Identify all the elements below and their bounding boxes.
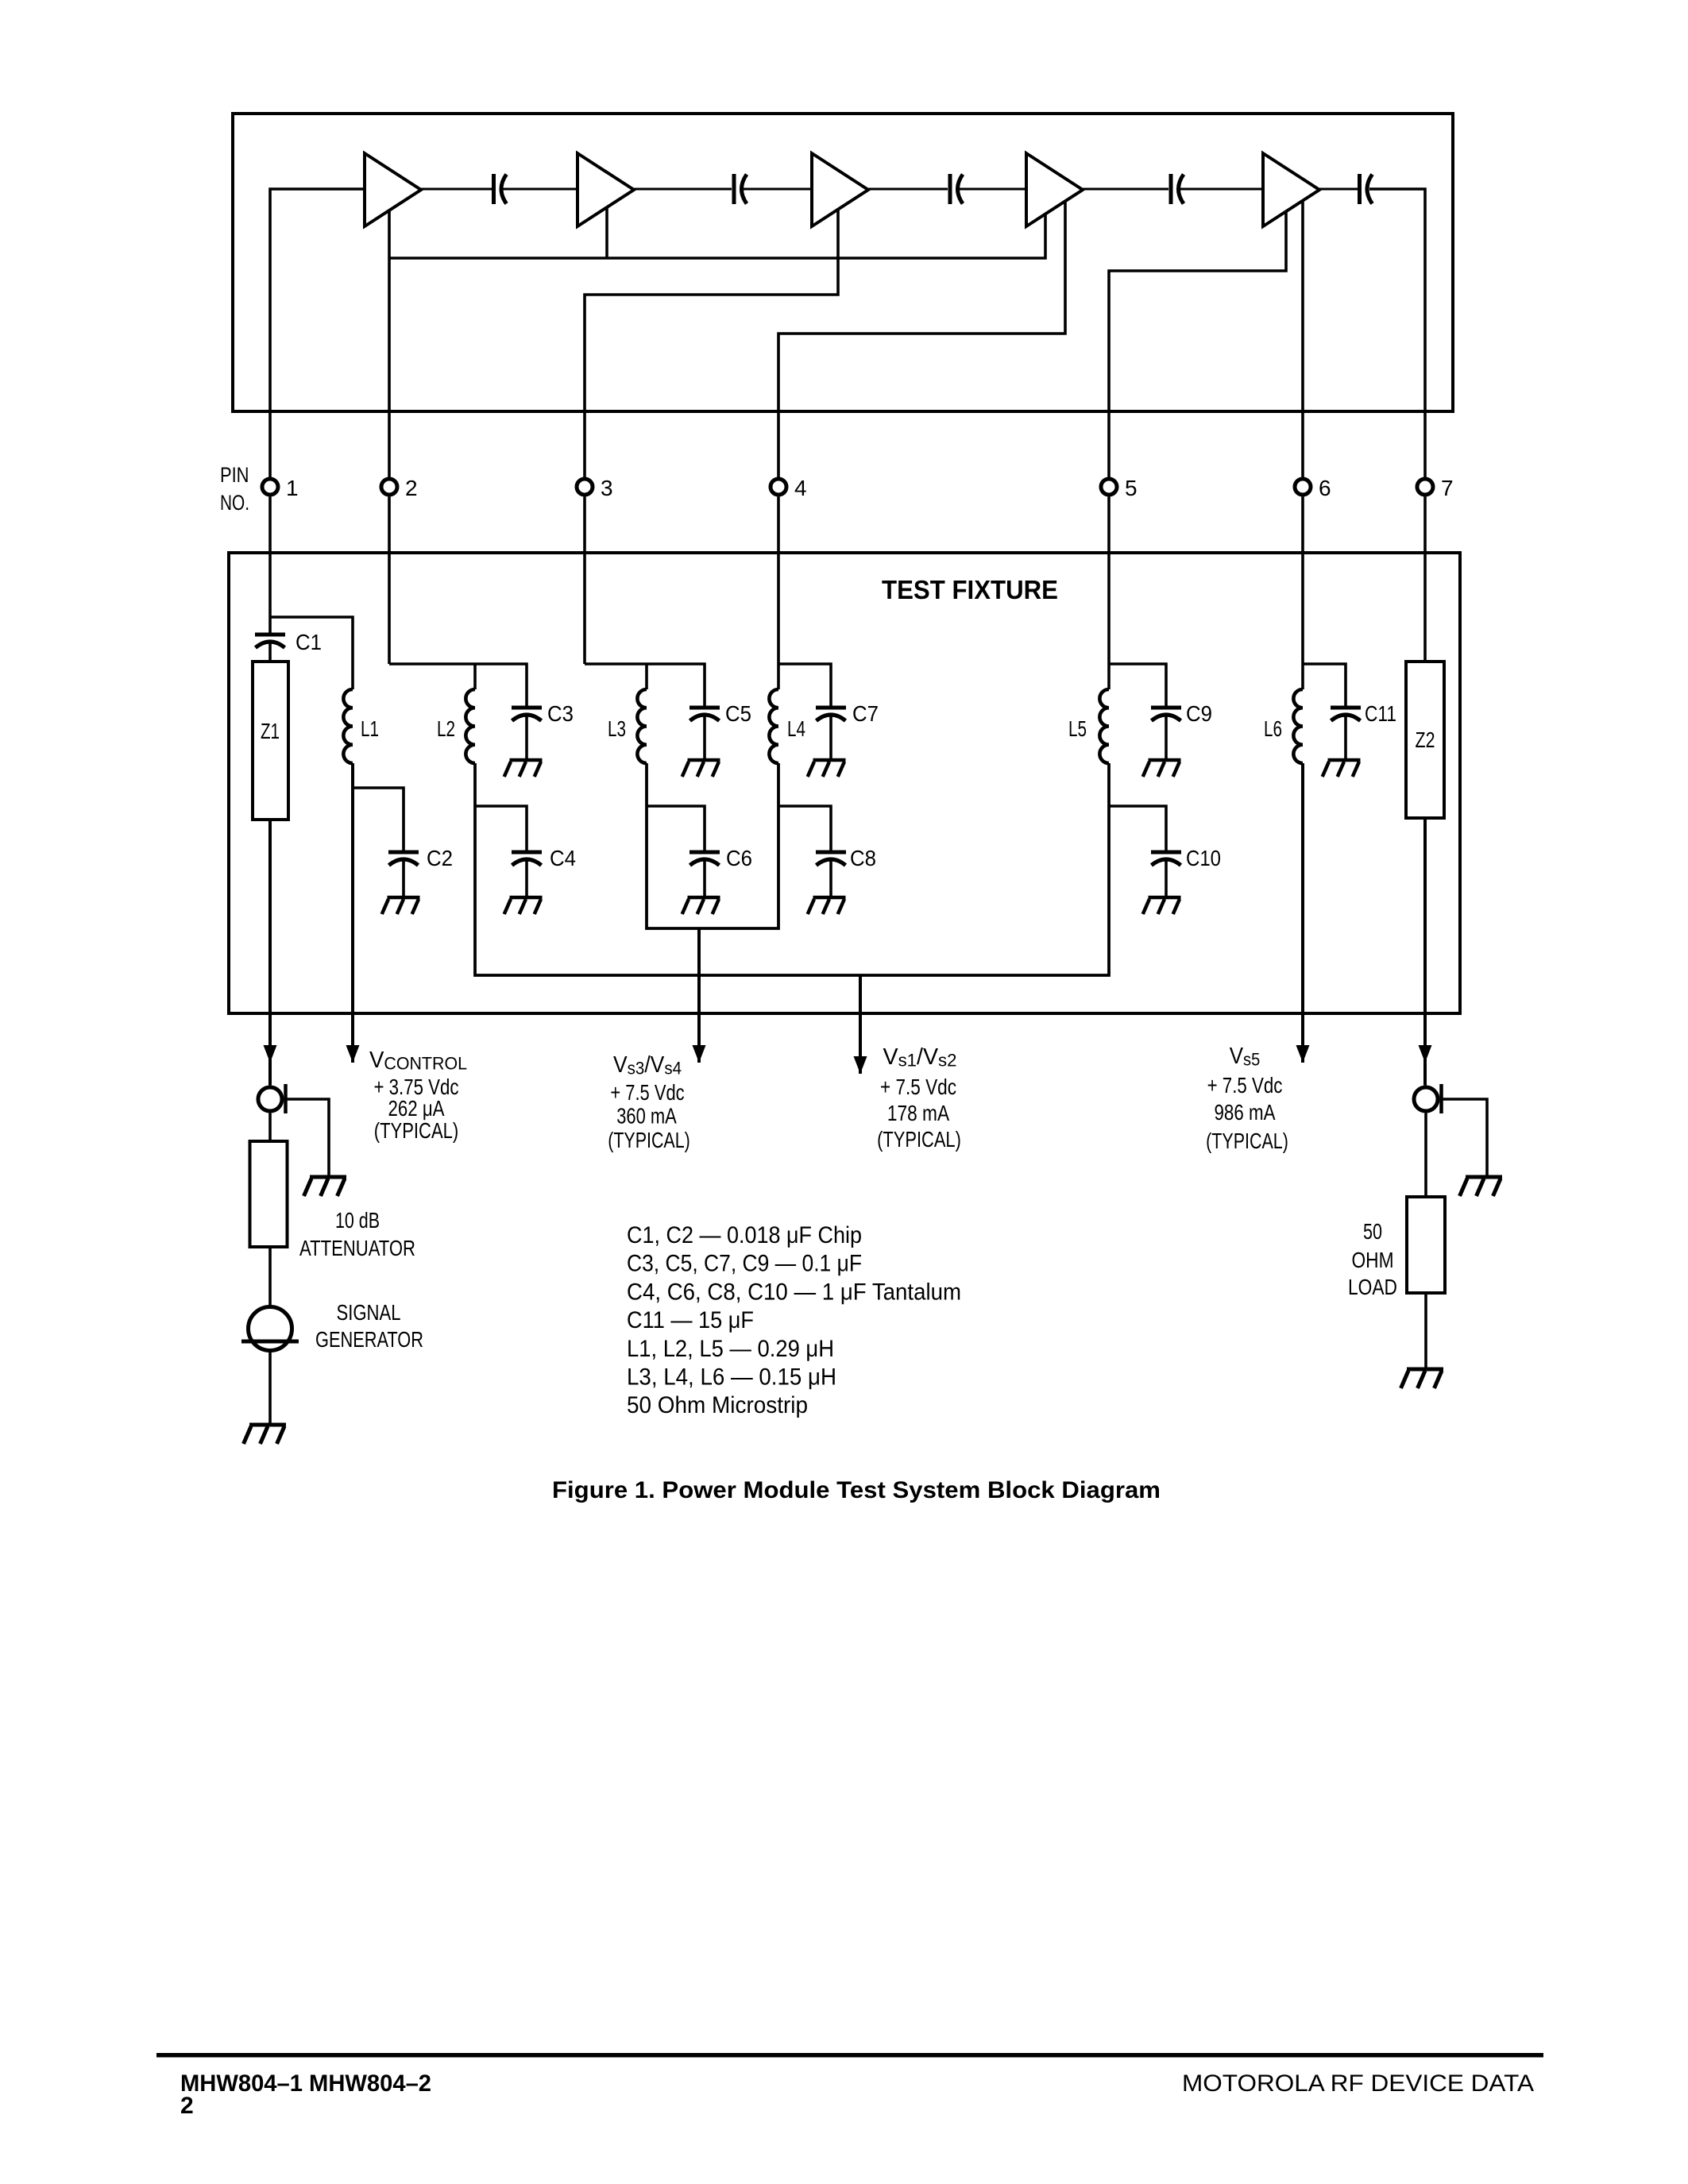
capacitor C7 (816, 708, 846, 721)
svg-text:PIN: PIN (220, 463, 249, 487)
svg-text:+ 7.5 Vdc: + 7.5 Vdc (1207, 1073, 1283, 1098)
wire: C10 to ground (1165, 859, 1168, 896)
wire: input connector shield tap (288, 1099, 330, 1175)
capacitor C2 (388, 852, 419, 866)
wire: A2 bias drop (605, 207, 608, 258)
svg-text:OHM: OHM (1352, 1248, 1394, 1272)
svg-text:L5: L5 (1068, 716, 1087, 741)
coupling capacitor output (1360, 174, 1373, 204)
wire: C1 to Z1 (268, 642, 272, 662)
load resistor (50 ohm) (1407, 1197, 1445, 1293)
svg-text:C3: C3 (547, 701, 574, 726)
ground (signal generator) (244, 1425, 287, 1444)
svg-text:C3, C5, C7, C9 — 0.1 μF: C3, C5, C7, C9 — 0.1 μF (627, 1251, 862, 1277)
svg-text:(TYPICAL): (TYPICAL) (1206, 1129, 1288, 1153)
pin 5 terminal (1101, 479, 1117, 495)
capacitor C9 (1151, 708, 1181, 721)
svg-text:C11 — 15 μF: C11 — 15 μF (627, 1307, 754, 1333)
wire: output connector shield tap (1443, 1099, 1488, 1175)
wire: C3 to ground (525, 715, 528, 758)
svg-text:ATTENUATOR: ATTENUATOR (299, 1236, 415, 1260)
inductor L1 (343, 689, 353, 763)
impedance Z2 (1406, 662, 1444, 818)
svg-text:+ 7.5 Vdc: + 7.5 Vdc (610, 1080, 684, 1105)
wire: pin3 feed rail (585, 664, 705, 706)
capacitor C11 (1331, 708, 1361, 721)
svg-text:(TYPICAL): (TYPICAL) (608, 1128, 690, 1152)
svg-text:MHW804–1 MHW804–2: MHW804–1 MHW804–2 (180, 2070, 431, 2097)
wire: pin 3 into fixture (583, 497, 586, 665)
capacitor C5 (689, 708, 720, 721)
svg-text:NO.: NO. (220, 491, 249, 515)
arrow: VS3/VS4 feed (693, 1045, 706, 1063)
svg-text:178 mA: 178 mA (887, 1101, 949, 1125)
svg-text:Vs3/Vs4: Vs3/Vs4 (613, 1052, 682, 1078)
svg-text:C9: C9 (1186, 701, 1212, 726)
pin 2 terminal (381, 479, 397, 495)
ground (output connector) (1460, 1177, 1503, 1196)
coupling capacitor A2-A3 (734, 174, 747, 204)
wire: to A5 input (1180, 188, 1263, 191)
svg-text:+ 7.5 Vdc: + 7.5 Vdc (880, 1075, 956, 1099)
wire: to A3 input (744, 188, 812, 191)
wire: A2 output (633, 188, 732, 191)
amplifier A3 (812, 153, 868, 226)
svg-text:(TYPICAL): (TYPICAL) (374, 1118, 459, 1143)
wire: pin 6 into fixture / L6 stem (1301, 497, 1304, 690)
svg-text:C4: C4 (550, 846, 576, 870)
amplifier A4 (1026, 153, 1083, 226)
wire: connector to load (1424, 1113, 1427, 1198)
footer rule (156, 2053, 1543, 2058)
svg-text:C5: C5 (725, 701, 751, 726)
amplifier A1 (365, 153, 421, 226)
svg-text:C2: C2 (427, 846, 453, 870)
coupling capacitor A1-A2 (494, 174, 507, 204)
wire: L4 to C8 / C8 top stem (778, 806, 831, 851)
svg-text:Vs1/Vs2: Vs1/Vs2 (883, 1044, 957, 1071)
wire: input to amplifier A1 / pin 1 column (270, 189, 365, 477)
ground (C7) (808, 760, 846, 777)
capacitor C4 (512, 852, 542, 866)
wire: C6 to ground (703, 859, 706, 896)
svg-text:360 mA: 360 mA (616, 1104, 677, 1129)
arrow: VS5 feed (1296, 1045, 1310, 1063)
wire: to A2 input (503, 188, 577, 191)
wire: pin 2 into fixture (388, 497, 391, 665)
arrow: VS1/VS2 feed (854, 1056, 867, 1074)
signal generator (241, 1307, 299, 1351)
svg-text:LOAD: LOAD (1348, 1275, 1397, 1299)
pin 6 terminal (1295, 479, 1311, 495)
svg-text:TEST FIXTURE: TEST FIXTURE (882, 575, 1058, 604)
pin 1 terminal (262, 479, 278, 495)
coax connector (output) (1414, 1084, 1442, 1113)
wire: pin2 feed rail (389, 664, 527, 706)
wire: Z2 to RF output connector (1423, 818, 1427, 1086)
wire: pin 5 into fixture / L5 stem (1107, 497, 1111, 690)
wire: A1 output (421, 188, 492, 191)
ground (C8) (808, 897, 846, 914)
wire: A4 bias drop b / bias rail C / pin 4 column (778, 201, 1065, 477)
svg-text:L2: L2 (437, 716, 455, 741)
inductor L4 (769, 689, 778, 763)
inductor L3 (637, 689, 647, 763)
wire: L1 bottom to C2 / C2 top stem (353, 788, 404, 851)
svg-text:Figure 1. Power Module Test Sy: Figure 1. Power Module Test System Block… (552, 1477, 1161, 1503)
wire: A5 output drop / pin 6 column (1301, 200, 1304, 477)
wire: pin 1 into fixture (268, 497, 272, 633)
wire: L1 to VCONTROL arrow (351, 763, 354, 1063)
power module outline (233, 114, 1453, 411)
svg-text:986 mA: 986 mA (1215, 1100, 1276, 1125)
ground (C10) (1143, 897, 1181, 914)
svg-text:L6: L6 (1264, 716, 1282, 741)
svg-text:10 dB: 10 dB (335, 1208, 380, 1233)
wire: C7 to ground (829, 715, 832, 758)
coupling capacitor A3-A4 (950, 174, 963, 204)
ground (C6) (682, 897, 720, 914)
svg-text:7: 7 (1441, 476, 1454, 500)
capacitor C6 (689, 852, 720, 866)
capacitor C10 (1151, 852, 1181, 866)
wire: VS3/VS4 arrow stem (697, 928, 701, 1063)
wire: L2 bottom stem / VS1-VS2 rail / L5 bottom stem (475, 763, 1109, 975)
svg-text:262 μA: 262 μA (388, 1096, 445, 1121)
wire: load to ground (1424, 1293, 1427, 1368)
svg-text:50: 50 (1363, 1219, 1382, 1244)
amplifier A2 (577, 153, 634, 226)
impedance Z1 (253, 662, 288, 820)
wire: L2 top stem (473, 664, 477, 689)
wire: attenuator to signal generator (268, 1247, 272, 1306)
wire: signal generator to ground (268, 1351, 272, 1424)
arrow: RF output direction (1419, 1045, 1432, 1063)
svg-text:SIGNAL: SIGNAL (337, 1300, 401, 1325)
svg-text:L3: L3 (608, 716, 626, 741)
pin 4 terminal (771, 479, 786, 495)
ground (C3) (504, 760, 543, 777)
wire: pin1 to L1 feed / L1 top stem (270, 617, 353, 689)
capacitor C8 (816, 852, 846, 866)
wire: C4 to ground (525, 859, 528, 896)
svg-text:C10: C10 (1186, 846, 1221, 870)
inductor L6 (1293, 689, 1303, 763)
svg-text:L1, L2, L5 — 0.29 μH: L1, L2, L5 — 0.29 μH (627, 1336, 834, 1362)
ground (load) (1401, 1369, 1444, 1388)
ground (C4) (504, 897, 543, 914)
svg-text:Vs5: Vs5 (1230, 1044, 1261, 1070)
wire: pin4 to C7 feed (778, 664, 831, 706)
svg-text:4: 4 (794, 476, 807, 500)
svg-text:C4, C6, C8, C10 — 1 μF Tantalu: C4, C6, C8, C10 — 1 μF Tantalum (627, 1279, 961, 1305)
wire: A4 output (1082, 188, 1168, 191)
wire: to A4 input (960, 188, 1026, 191)
arrow: RF input direction (264, 1045, 277, 1063)
inductor L5 (1099, 689, 1109, 763)
amplifier A5 (1263, 153, 1319, 226)
wire: C2 to ground (402, 859, 405, 896)
wire: L3 bottom stem / VS3-VS4 rail / L4 bottom stem (647, 763, 778, 928)
svg-text:2: 2 (405, 476, 418, 500)
wire: A5 bias drop / bias rail D / pin 5 column (1109, 211, 1286, 477)
wire: pin6 to C11 feed (1303, 664, 1346, 706)
wire: pin 4 into fixture / L4 stem (777, 497, 780, 690)
wire: A5 output (1319, 188, 1358, 191)
wire: L5 to C10 / C10 top stem (1109, 806, 1166, 851)
wire: A3 bias drop / bias rail B / pin 3 column (585, 210, 838, 477)
svg-text:C11: C11 (1365, 701, 1396, 726)
wire: Z1 to RF input connector (268, 820, 272, 1086)
wire: connector to attenuator (268, 1113, 272, 1142)
svg-text:Z2: Z2 (1416, 727, 1435, 752)
svg-text:L3, L4, L6 — 0.15 μH: L3, L4, L6 — 0.15 μH (627, 1364, 836, 1391)
svg-text:50 Ohm Microstrip: 50 Ohm Microstrip (627, 1392, 808, 1418)
svg-text:MOTOROLA RF DEVICE DATA: MOTOROLA RF DEVICE DATA (1182, 2070, 1534, 2097)
wire: L3 top stem (645, 664, 648, 689)
wire: C9 to ground (1165, 715, 1168, 758)
arrow: VCONTROL feed (346, 1045, 360, 1063)
svg-text:2: 2 (180, 2093, 194, 2119)
pin 7 terminal (1417, 479, 1433, 495)
inductor L2 (465, 689, 475, 763)
wire: A1 bias drop / pin 2 column (388, 210, 391, 477)
ground (C2) (382, 897, 420, 914)
ground (C9) (1143, 760, 1181, 777)
wire: bias rail A / A4 bias drop a (389, 214, 1045, 258)
attenuator (10 dB) (250, 1141, 288, 1247)
svg-text:L1: L1 (361, 716, 379, 741)
wire: C8 to ground (829, 859, 832, 896)
ground (C11) (1323, 760, 1361, 777)
svg-text:5: 5 (1125, 476, 1138, 500)
wire: pin5 to C9 feed (1109, 664, 1166, 706)
wire: L3 to C6 / C6 top stem (647, 806, 705, 851)
svg-text:C8: C8 (850, 846, 876, 870)
wire: C11 to ground (1344, 715, 1347, 758)
pin 3 terminal (577, 479, 593, 495)
test fixture outline (229, 553, 1460, 1013)
wire: C5 to ground (703, 715, 706, 758)
svg-text:6: 6 (1319, 476, 1331, 500)
ground (C5) (682, 760, 720, 777)
svg-text:C1: C1 (295, 630, 322, 654)
wire: to pin 7 / pin 7 column (1369, 189, 1425, 477)
svg-text:VCONTROL: VCONTROL (369, 1048, 467, 1074)
svg-text:GENERATOR: GENERATOR (315, 1327, 423, 1352)
ground (input connector) (304, 1177, 347, 1196)
wire: L6 to VS5 arrow (1301, 763, 1304, 1063)
svg-text:C6: C6 (726, 846, 752, 870)
coax connector (input) (258, 1084, 286, 1113)
svg-text:3: 3 (601, 476, 613, 500)
capacitor C3 (512, 708, 542, 721)
wire: VS1/VS2 arrow stem (859, 975, 862, 1074)
svg-text:1: 1 (286, 476, 299, 500)
svg-text:Z1: Z1 (261, 719, 280, 743)
svg-text:L4: L4 (787, 716, 805, 741)
coupling capacitor A4-A5 (1171, 174, 1184, 204)
svg-text:C1, C2 — 0.018 μF Chip: C1, C2 — 0.018 μF Chip (627, 1222, 862, 1248)
svg-text:(TYPICAL): (TYPICAL) (877, 1127, 961, 1152)
svg-text:C7: C7 (852, 701, 879, 726)
capacitor C1 (255, 635, 285, 648)
wire: L2 to C4 / C4 top stem (475, 806, 527, 851)
wire: pin 7 into fixture (1423, 497, 1427, 662)
wire: A3 output (868, 188, 948, 191)
